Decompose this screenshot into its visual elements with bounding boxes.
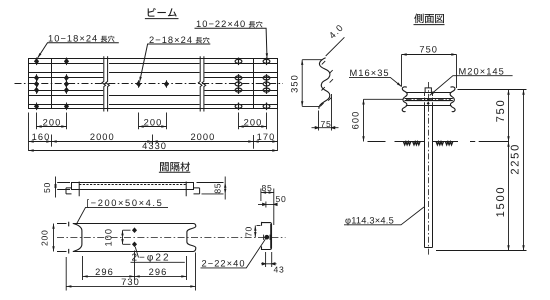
- post hidden lines through beam: [425, 93, 433, 105]
- label 10-22x40: [196, 19, 246, 29]
- svg-text:750: 750: [495, 99, 507, 123]
- wave bend tick marks: [320, 61, 333, 106]
- dims 296 296: [83, 251, 187, 281]
- beam side (bone) view: [402, 87, 455, 112]
- dim 43 bottom: [261, 252, 277, 267]
- svg-text:85: 85: [262, 183, 273, 193]
- svg-text:350: 350: [290, 74, 300, 93]
- svg-text:2250: 2250: [510, 143, 522, 175]
- svg-text:10−18×24: 10−18×24: [48, 34, 98, 44]
- break line 2: [198, 56, 205, 111]
- plan dim 85 right: [197, 177, 226, 200]
- svg-text:50: 50: [276, 194, 287, 204]
- post visible lines: [425, 106, 433, 248]
- bend lines in plan: [79, 182, 186, 197]
- label M16x35: [350, 68, 390, 78]
- label M20x145: [459, 67, 505, 77]
- svg-text:296: 296: [149, 267, 168, 277]
- svg-text:1500: 1500: [495, 186, 507, 218]
- title spacer: [160, 162, 190, 172]
- svg-text:200: 200: [43, 117, 62, 127]
- ground line: [368, 141, 509, 143]
- svg-text:43: 43: [274, 264, 285, 274]
- front view centerline: [57, 237, 286, 239]
- front view holes 2-phi22: [133, 228, 137, 247]
- svg-text:[−200×50×4.5: [−200×50×4.5: [87, 198, 164, 208]
- bolt center marks: [427, 98, 430, 105]
- svg-text:296: 296: [95, 267, 114, 277]
- dimension 200 row: [37, 126, 267, 128]
- svg-text:M20×145: M20×145: [459, 67, 505, 77]
- spacer plan view bar: [66, 182, 200, 197]
- dim 70 left of section: [255, 226, 260, 238]
- bolt head M20 on top: [425, 88, 431, 93]
- bolt in section: [264, 235, 270, 240]
- bone centerline: [406, 99, 451, 101]
- svg-text:2−18×24: 2−18×24: [149, 35, 193, 45]
- spacer front view outline: [69, 222, 196, 254]
- label 10-18x24: [48, 34, 98, 44]
- bottom edge: [406, 105, 452, 107]
- title beam: [148, 8, 177, 17]
- slotted holes 18x24 left columns: [35, 58, 169, 111]
- svg-text:200: 200: [144, 117, 163, 127]
- svg-text:2000: 2000: [190, 132, 215, 142]
- svg-text:75: 75: [321, 119, 332, 129]
- svg-text:730: 730: [121, 277, 140, 287]
- side section channel: [261, 223, 271, 250]
- label phi114.3x4.5: [345, 215, 394, 225]
- beam centerline: [15, 83, 284, 85]
- svg-text:10−22×40: 10−22×40: [196, 19, 246, 29]
- post centerline: [428, 82, 430, 256]
- left end curl: [402, 87, 407, 112]
- svg-text:φ114.3×4.5: φ114.3×4.5: [345, 215, 394, 225]
- svg-text:50: 50: [42, 182, 52, 193]
- svg-text:160: 160: [32, 132, 51, 142]
- right end curl: [450, 87, 455, 112]
- beam fold lines at ends only: [29, 78, 278, 91]
- svg-text:M16×35: M16×35: [350, 68, 390, 78]
- svg-text:100: 100: [104, 228, 114, 247]
- slotted holes 22x40 right columns: [235, 58, 270, 111]
- svg-text:200: 200: [244, 117, 263, 127]
- dim 85 top: [261, 189, 274, 226]
- dimension 160/2000/2000/170 row: [29, 141, 278, 143]
- dim 200 left of front view: [54, 224, 67, 252]
- label 2-18x24: [149, 35, 193, 45]
- dim 2250: [523, 90, 525, 251]
- svg-text:170: 170: [257, 132, 276, 142]
- dim 1500 right: [508, 142, 510, 251]
- plan dim 50 left: [56, 177, 71, 198]
- dim 50: [258, 202, 277, 208]
- hidden edge dashed in plan: [79, 184, 186, 186]
- ground hatching: [404, 142, 453, 145]
- right extension lines: [436, 90, 527, 251]
- dim 100 between holes: [123, 230, 131, 244]
- end tabs in plan: [66, 188, 72, 194]
- dim 350: [302, 60, 322, 107]
- svg-text:4330: 4330: [142, 141, 167, 151]
- label 2-22x40: [202, 258, 246, 268]
- W-beam cross-section wave: [319, 58, 330, 109]
- svg-text:200: 200: [39, 229, 49, 245]
- svg-text:600: 600: [351, 111, 361, 130]
- dimension 4330: [29, 150, 278, 152]
- label 2-phi22: [132, 252, 171, 263]
- label 4.0: [327, 22, 345, 40]
- dim 75: [312, 94, 339, 131]
- dim 600: [364, 99, 404, 141]
- thickness 4.0 cut line: [326, 37, 345, 56]
- middle fold lines: [405, 99, 453, 101]
- dim 730: [66, 253, 195, 291]
- svg-text:2000: 2000: [90, 132, 115, 142]
- dimension extension lines below beam: [29, 109, 278, 151]
- svg-text:4.0: 4.0: [327, 22, 345, 40]
- svg-text:85: 85: [213, 183, 223, 194]
- break line 1: [102, 56, 109, 111]
- dim 750 right: [508, 90, 510, 142]
- svg-text:2−22×40: 2−22×40: [202, 258, 246, 268]
- svg-text:70: 70: [243, 226, 253, 237]
- beam lap joint lines: [52, 59, 254, 109]
- beam outline: [29, 59, 278, 109]
- top edge: [406, 92, 452, 94]
- spacer channel label: [87, 198, 164, 208]
- title side view: [414, 14, 444, 24]
- beam fold lines full length: [29, 64, 278, 105]
- dim 750 top: [402, 55, 457, 89]
- svg-text:750: 750: [419, 45, 438, 55]
- middle holes 2-18x24: [137, 80, 169, 88]
- left end stubs: [68, 222, 70, 254]
